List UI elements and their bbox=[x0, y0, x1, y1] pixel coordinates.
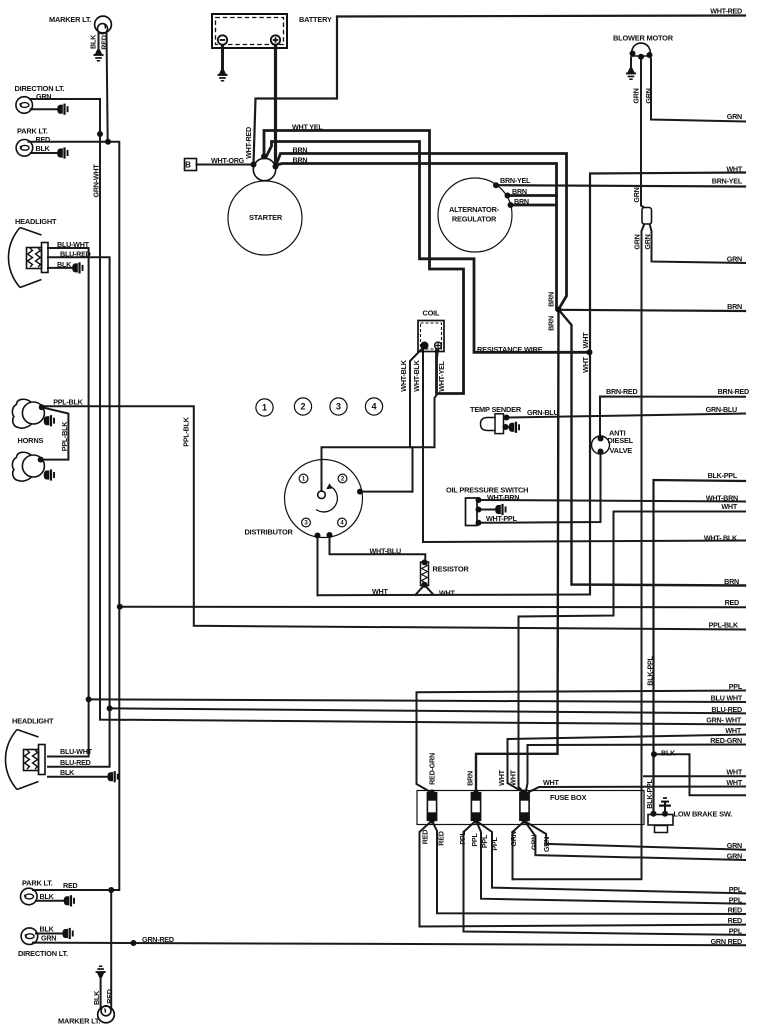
svg-text:BRN: BRN bbox=[514, 197, 529, 206]
svg-text:BLU-WHT: BLU-WHT bbox=[57, 240, 90, 249]
svg-text:BRN: BRN bbox=[547, 292, 556, 307]
svg-text:BLK: BLK bbox=[661, 749, 676, 758]
svg-text:BLK: BLK bbox=[40, 925, 55, 934]
svg-text:RED: RED bbox=[36, 135, 50, 144]
svg-text:BLOWER MOTOR: BLOWER MOTOR bbox=[613, 34, 674, 43]
svg-text:HORNS: HORNS bbox=[18, 436, 44, 445]
svg-text:WHT YEL: WHT YEL bbox=[292, 122, 323, 131]
svg-text:BLU-RED: BLU-RED bbox=[711, 705, 742, 714]
svg-text:BRN-YEL: BRN-YEL bbox=[712, 177, 743, 186]
svg-text:WHT: WHT bbox=[372, 587, 388, 596]
svg-text:GRN-BLU: GRN-BLU bbox=[706, 405, 737, 414]
svg-text:MARKER LT.: MARKER LT. bbox=[49, 15, 91, 24]
svg-text:WHT-RED: WHT-RED bbox=[244, 127, 253, 159]
svg-text:PPL-BLK: PPL-BLK bbox=[709, 621, 739, 630]
svg-text:BLK: BLK bbox=[60, 768, 75, 777]
svg-text:RESISTANCE WIRE: RESISTANCE WIRE bbox=[477, 345, 543, 354]
svg-text:RED: RED bbox=[63, 881, 77, 890]
svg-text:BLK: BLK bbox=[36, 144, 51, 153]
svg-text:DIESEL: DIESEL bbox=[608, 436, 634, 445]
svg-text:RED-GRN: RED-GRN bbox=[710, 736, 742, 745]
svg-text:WHT: WHT bbox=[726, 778, 742, 787]
svg-text:GRN-BLU: GRN-BLU bbox=[527, 408, 558, 417]
svg-text:RED: RED bbox=[421, 830, 430, 844]
svg-text:BRN: BRN bbox=[727, 302, 742, 311]
svg-text:BRN: BRN bbox=[293, 145, 308, 154]
svg-text:WHT: WHT bbox=[543, 778, 559, 787]
svg-text:WHT: WHT bbox=[726, 165, 742, 174]
svg-text:BLK: BLK bbox=[57, 260, 72, 269]
svg-text:GRN: GRN bbox=[41, 934, 56, 943]
svg-text:HEADLIGHT: HEADLIGHT bbox=[12, 717, 54, 726]
svg-text:PPL-BLK: PPL-BLK bbox=[60, 421, 69, 451]
svg-text:WHT: WHT bbox=[497, 769, 506, 785]
svg-text:PPL: PPL bbox=[729, 682, 743, 691]
svg-text:PPL: PPL bbox=[729, 885, 743, 894]
svg-text:PPL: PPL bbox=[470, 833, 479, 847]
svg-text:PPL: PPL bbox=[729, 896, 743, 905]
svg-text:BRN-RED: BRN-RED bbox=[606, 387, 637, 396]
svg-text:PPL-BLK: PPL-BLK bbox=[182, 416, 191, 446]
svg-text:BLK: BLK bbox=[40, 892, 55, 901]
svg-text:GRN: GRN bbox=[727, 852, 742, 861]
svg-text:GRN: GRN bbox=[542, 837, 551, 852]
svg-text:GRN: GRN bbox=[727, 255, 742, 264]
svg-text:PPL-BLK: PPL-BLK bbox=[53, 397, 83, 406]
svg-text:WHT-YEL: WHT-YEL bbox=[437, 360, 446, 391]
svg-text:GRN: GRN bbox=[509, 831, 518, 846]
svg-text:WHT: WHT bbox=[726, 768, 742, 777]
svg-text:BRN: BRN bbox=[547, 316, 556, 331]
svg-text:RED: RED bbox=[99, 35, 108, 49]
svg-text:DISTRIBUTOR: DISTRIBUTOR bbox=[245, 528, 294, 537]
svg-text:MARKER LT.: MARKER LT. bbox=[58, 1017, 100, 1026]
svg-text:WHT: WHT bbox=[439, 589, 455, 598]
svg-text:ALTERNATOR-: ALTERNATOR- bbox=[449, 205, 500, 214]
svg-text:BLK-PPL: BLK-PPL bbox=[645, 778, 654, 808]
svg-text:BLK: BLK bbox=[89, 34, 98, 49]
svg-text:RED: RED bbox=[725, 598, 739, 607]
svg-text:RED: RED bbox=[728, 906, 742, 915]
svg-text:GRN: GRN bbox=[633, 234, 642, 249]
svg-text:BRN: BRN bbox=[466, 771, 475, 786]
svg-text:WHT-ORG: WHT-ORG bbox=[211, 156, 245, 165]
svg-text:GRN: GRN bbox=[632, 187, 641, 202]
svg-text:BRN-RED: BRN-RED bbox=[718, 387, 749, 396]
svg-text:WHT- BLK: WHT- BLK bbox=[704, 534, 738, 543]
svg-text:WHT-BLK: WHT-BLK bbox=[399, 359, 408, 391]
svg-text:WHT: WHT bbox=[721, 502, 737, 511]
svg-text:B: B bbox=[185, 161, 191, 170]
svg-text:WHT: WHT bbox=[581, 332, 590, 348]
svg-text:PARK LT.: PARK LT. bbox=[22, 879, 53, 888]
svg-text:VALVE: VALVE bbox=[610, 446, 633, 455]
svg-text:BLU-WHT: BLU-WHT bbox=[60, 747, 93, 756]
svg-text:3: 3 bbox=[336, 402, 341, 412]
svg-text:FUSE BOX: FUSE BOX bbox=[550, 793, 586, 802]
svg-text:RED: RED bbox=[105, 989, 114, 1003]
svg-text:PPL: PPL bbox=[729, 927, 743, 936]
svg-text:WHT: WHT bbox=[725, 726, 741, 735]
svg-text:BLU-RED: BLU-RED bbox=[60, 249, 91, 258]
svg-text:WHT-BLU: WHT-BLU bbox=[370, 546, 401, 555]
svg-text:WHT: WHT bbox=[509, 769, 518, 785]
svg-text:WHT-PPL: WHT-PPL bbox=[486, 514, 517, 523]
svg-text:PPL: PPL bbox=[480, 834, 489, 848]
svg-text:BLU WHT: BLU WHT bbox=[711, 694, 743, 703]
svg-text:TEMP SENDER: TEMP SENDER bbox=[470, 405, 522, 414]
svg-text:PPL: PPL bbox=[458, 831, 467, 845]
svg-text:BLK-PPL: BLK-PPL bbox=[708, 471, 738, 480]
svg-text:PPL: PPL bbox=[490, 837, 499, 851]
svg-text:STARTER: STARTER bbox=[249, 213, 283, 222]
svg-text:4: 4 bbox=[371, 402, 376, 412]
svg-text:RED: RED bbox=[437, 831, 446, 845]
svg-text:GRN: GRN bbox=[530, 835, 539, 850]
svg-text:GRN RED: GRN RED bbox=[711, 937, 742, 946]
svg-text:DIRECTION LT.: DIRECTION LT. bbox=[18, 949, 68, 958]
svg-text:GRN: GRN bbox=[632, 88, 641, 103]
svg-text:REGULATOR: REGULATOR bbox=[452, 215, 497, 224]
svg-text:1: 1 bbox=[262, 403, 267, 413]
svg-text:RESISTOR: RESISTOR bbox=[433, 565, 470, 574]
svg-text:COIL: COIL bbox=[423, 309, 441, 318]
svg-text:GRN: GRN bbox=[727, 841, 742, 850]
svg-text:LOW BRAKE SW.: LOW BRAKE SW. bbox=[674, 810, 733, 819]
svg-text:HEADLIGHT: HEADLIGHT bbox=[15, 217, 57, 226]
svg-text:GRN: GRN bbox=[643, 234, 652, 249]
svg-text:GRN- WHT: GRN- WHT bbox=[706, 716, 742, 725]
svg-text:2: 2 bbox=[300, 402, 305, 412]
svg-text:RED-GRN: RED-GRN bbox=[428, 753, 437, 785]
svg-text:WHT-BRN: WHT-BRN bbox=[487, 493, 519, 502]
svg-text:BLK: BLK bbox=[92, 990, 101, 1005]
svg-text:BATTERY: BATTERY bbox=[299, 15, 332, 24]
svg-text:BLU-RED: BLU-RED bbox=[60, 758, 91, 767]
svg-text:WHT: WHT bbox=[581, 356, 590, 372]
svg-text:WHT-RED: WHT-RED bbox=[710, 7, 742, 16]
svg-text:BRN: BRN bbox=[293, 156, 308, 165]
svg-text:BRN-YEL: BRN-YEL bbox=[500, 176, 531, 185]
svg-text:GRN-RED: GRN-RED bbox=[142, 935, 174, 944]
svg-text:GRN: GRN bbox=[727, 112, 742, 121]
svg-text:GRN-WHT: GRN-WHT bbox=[92, 164, 101, 198]
svg-text:WHT-BLK: WHT-BLK bbox=[412, 359, 421, 391]
svg-text:BRN: BRN bbox=[512, 187, 527, 196]
svg-text:BLK-PPL: BLK-PPL bbox=[646, 655, 655, 685]
svg-text:GRN: GRN bbox=[36, 92, 51, 101]
svg-text:RED: RED bbox=[728, 916, 742, 925]
svg-text:BRN: BRN bbox=[724, 577, 739, 586]
svg-text:GRN: GRN bbox=[644, 88, 653, 103]
